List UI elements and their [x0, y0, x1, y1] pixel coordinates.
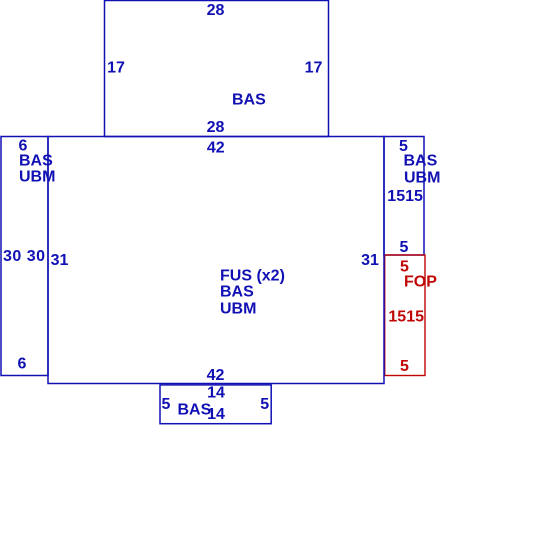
svg-text:BAS: BAS	[232, 92, 266, 109]
panel main FUS rectangle	[48, 137, 384, 384]
svg-text:5: 5	[162, 396, 171, 413]
svg-text:30 30: 30 30	[3, 248, 46, 265]
svg-text:14: 14	[207, 385, 225, 402]
svg-text:42: 42	[207, 367, 225, 384]
svg-text:FUS (x2): FUS (x2)	[220, 268, 285, 285]
svg-text:1515: 1515	[387, 188, 423, 205]
svg-text:5: 5	[400, 358, 409, 375]
svg-text:17: 17	[305, 60, 323, 77]
svg-text:UBM: UBM	[404, 170, 440, 187]
svg-text:42: 42	[207, 139, 225, 156]
panel FOP red rectangle	[385, 255, 425, 376]
svg-text:FOP: FOP	[404, 274, 437, 291]
svg-text:14: 14	[207, 406, 225, 423]
panel top BAS rectangle	[105, 1, 329, 137]
svg-text:31: 31	[361, 252, 379, 269]
svg-text:28: 28	[207, 2, 225, 19]
panel bottom BAS rectangle	[160, 385, 271, 424]
svg-text:UBM: UBM	[19, 169, 55, 186]
svg-text:17: 17	[107, 60, 125, 77]
svg-text:31: 31	[51, 252, 69, 269]
svg-text:6: 6	[18, 356, 27, 373]
svg-text:BAS: BAS	[404, 153, 438, 170]
panel right strip BAS UBM rectangle	[384, 137, 424, 256]
panel left strip rectangle	[1, 137, 48, 376]
svg-text:28: 28	[207, 119, 225, 136]
svg-text:5: 5	[260, 396, 269, 413]
svg-text:BAS: BAS	[220, 284, 254, 301]
svg-text:UBM: UBM	[220, 301, 256, 318]
svg-text:1515: 1515	[388, 309, 424, 326]
svg-text:5: 5	[400, 239, 409, 256]
